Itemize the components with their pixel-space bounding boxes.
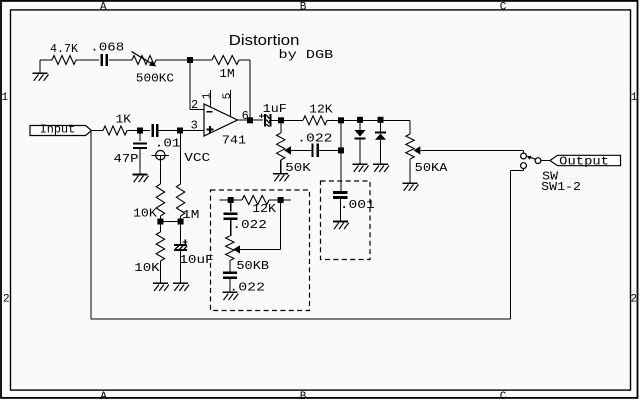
wire — [230, 200, 232, 212]
wire — [541, 160, 551, 162]
wire — [340, 120, 342, 191]
wire — [339, 198, 341, 222]
svg-text:10K: 10K — [134, 261, 160, 275]
wire — [380, 140, 382, 164]
resistor 4.7K — [52, 56, 76, 65]
wire — [291, 149, 312, 151]
dashed box clipping module — [211, 190, 310, 311]
resistor 1M bias — [176, 184, 184, 216]
svg-text:1K: 1K — [116, 112, 132, 126]
junction — [338, 117, 344, 123]
svg-text:A: A — [100, 391, 107, 400]
plus sign 10uF — [183, 241, 188, 243]
wire — [160, 221, 180, 223]
svg-text:1uF: 1uF — [263, 102, 287, 116]
op-amp minus sign — [207, 111, 213, 113]
resistor 10K lower — [156, 232, 164, 261]
input flag — [30, 126, 92, 136]
capacitor .001 — [333, 191, 347, 194]
svg-text:1: 1 — [202, 92, 214, 99]
wire — [359, 120, 361, 130]
plus sign 1uF — [259, 115, 264, 117]
switch pole — [535, 158, 541, 164]
ground — [403, 182, 418, 184]
wire — [229, 278, 231, 292]
wire — [409, 120, 411, 134]
wire — [269, 199, 291, 201]
wire — [280, 120, 282, 133]
wire — [238, 119, 264, 121]
ground — [153, 282, 168, 284]
junction — [357, 117, 363, 123]
svg-text:50K: 50K — [285, 161, 311, 175]
ground — [353, 163, 368, 165]
wire — [127, 130, 150, 132]
wire — [180, 251, 182, 284]
svg-text:C: C — [500, 391, 507, 400]
junction node bias — [157, 219, 163, 225]
wire — [359, 140, 361, 165]
svg-text:.001: .001 — [340, 198, 375, 212]
op-amp plus sign — [207, 129, 214, 131]
wire — [156, 59, 189, 61]
svg-text:3: 3 — [191, 119, 198, 133]
potentiometer 500KC — [132, 56, 156, 65]
svg-text:.01: .01 — [155, 136, 181, 150]
svg-text:A: A — [100, 1, 107, 13]
switch contact down — [521, 163, 527, 169]
resistor 12K module — [242, 196, 269, 205]
wire — [92, 130, 104, 132]
wire — [109, 59, 132, 61]
svg-text:12K: 12K — [252, 202, 277, 216]
ground — [222, 291, 237, 293]
wire — [139, 133, 141, 141]
op-amp 741 body — [204, 104, 238, 136]
wire — [159, 216, 161, 232]
svg-text:1: 1 — [2, 92, 9, 104]
resistor 1K — [103, 126, 127, 135]
power symbol VCC — [156, 151, 165, 160]
diode D2 — [375, 132, 386, 134]
wire — [229, 261, 231, 272]
svg-text:4.7K: 4.7K — [50, 42, 79, 56]
wire — [318, 149, 342, 151]
potentiometer 50K — [277, 133, 285, 160]
capacitor .01 — [151, 124, 154, 137]
junction — [378, 117, 384, 123]
junction — [177, 128, 183, 134]
potentiometer 50K arrow — [284, 146, 291, 154]
junction node A — [187, 57, 193, 63]
junction — [228, 197, 234, 203]
potentiometer 50KA — [406, 134, 414, 159]
svg-text:SW1-2: SW1-2 — [541, 180, 581, 194]
wire — [230, 219, 232, 236]
wire — [380, 120, 382, 132]
svg-text:2: 2 — [631, 294, 638, 306]
wire — [510, 171, 512, 320]
resistor 10K upper — [156, 184, 164, 216]
svg-text:2: 2 — [3, 294, 10, 306]
potentiometer 50KB arrow — [233, 245, 240, 253]
ground — [373, 163, 388, 165]
capacitor .068 — [100, 54, 102, 66]
capacitor .022 tone — [311, 144, 313, 158]
wire — [189, 60, 191, 109]
output flag — [550, 155, 621, 165]
switch blade arrow — [530, 157, 536, 159]
potentiometer 50KA arrow — [414, 146, 421, 154]
svg-text:C: C — [500, 1, 507, 13]
junction node out — [247, 117, 253, 123]
wire — [159, 155, 161, 184]
svg-text:VCC: VCC — [184, 151, 210, 165]
svg-text:50KB: 50KB — [236, 259, 269, 273]
capacitor 10uF polarized — [174, 244, 187, 246]
capacitor .022 module lower — [223, 271, 237, 274]
wire — [523, 169, 525, 171]
wire bypass left — [90, 131, 92, 319]
wire — [157, 130, 204, 132]
wire — [180, 216, 182, 244]
svg-text:.022: .022 — [232, 218, 267, 232]
junction — [178, 219, 184, 225]
svg-text:B: B — [300, 1, 307, 13]
ground — [333, 221, 348, 223]
svg-text:Input: Input — [40, 123, 76, 137]
wire — [280, 160, 282, 173]
junction — [338, 147, 344, 153]
svg-text:1M: 1M — [219, 67, 234, 81]
wire — [420, 149, 523, 151]
svg-text:10uF: 10uF — [179, 253, 213, 267]
ground — [133, 174, 148, 176]
pin 5 stub — [230, 90, 232, 117]
capacitor 47P — [133, 142, 147, 144]
wire — [193, 59, 212, 61]
junction — [137, 128, 143, 134]
svg-text:by DGB: by DGB — [279, 48, 334, 62]
svg-text:5: 5 — [222, 93, 234, 100]
wire — [180, 131, 182, 185]
capacitor 1uF polarized — [264, 114, 266, 126]
capacitor .022 module upper — [224, 212, 238, 215]
pin 1 stub — [210, 90, 212, 107]
resistor 1M feedback — [212, 56, 239, 65]
ground — [173, 282, 188, 284]
wire — [76, 59, 99, 61]
dashed box cap module — [321, 181, 371, 260]
wire — [269, 119, 303, 121]
svg-text:50KA: 50KA — [415, 161, 449, 175]
wire — [39, 60, 41, 73]
svg-text:500KC: 500KC — [136, 71, 174, 85]
svg-text:1: 1 — [631, 92, 638, 104]
wire — [327, 119, 410, 121]
svg-text:1M: 1M — [182, 208, 199, 222]
wire — [409, 159, 411, 183]
svg-text:10K: 10K — [133, 206, 158, 220]
wire — [240, 248, 281, 250]
ground — [33, 72, 48, 74]
junction — [278, 197, 284, 203]
svg-text:B: B — [300, 391, 307, 400]
potentiometer 50KB — [226, 236, 234, 261]
wire bypass bottom — [91, 318, 511, 320]
potentiometer 500KC arrow — [132, 52, 151, 63]
svg-text:2: 2 — [191, 98, 198, 112]
diode D1 — [355, 130, 366, 137]
svg-text:Distortion: Distortion — [229, 33, 300, 49]
ground — [273, 173, 288, 175]
svg-text:Output: Output — [559, 155, 609, 169]
wire — [220, 199, 242, 201]
wire — [139, 149, 141, 175]
svg-text:.022: .022 — [297, 132, 332, 146]
junction — [278, 117, 284, 123]
wire — [239, 59, 250, 61]
svg-text:.068: .068 — [90, 40, 124, 54]
svg-text:741: 741 — [222, 133, 246, 147]
svg-text:47P: 47P — [114, 152, 139, 166]
wire — [159, 261, 161, 283]
resistor 12K — [303, 116, 327, 125]
svg-text:12K: 12K — [309, 103, 333, 117]
switch contact up — [521, 153, 527, 159]
